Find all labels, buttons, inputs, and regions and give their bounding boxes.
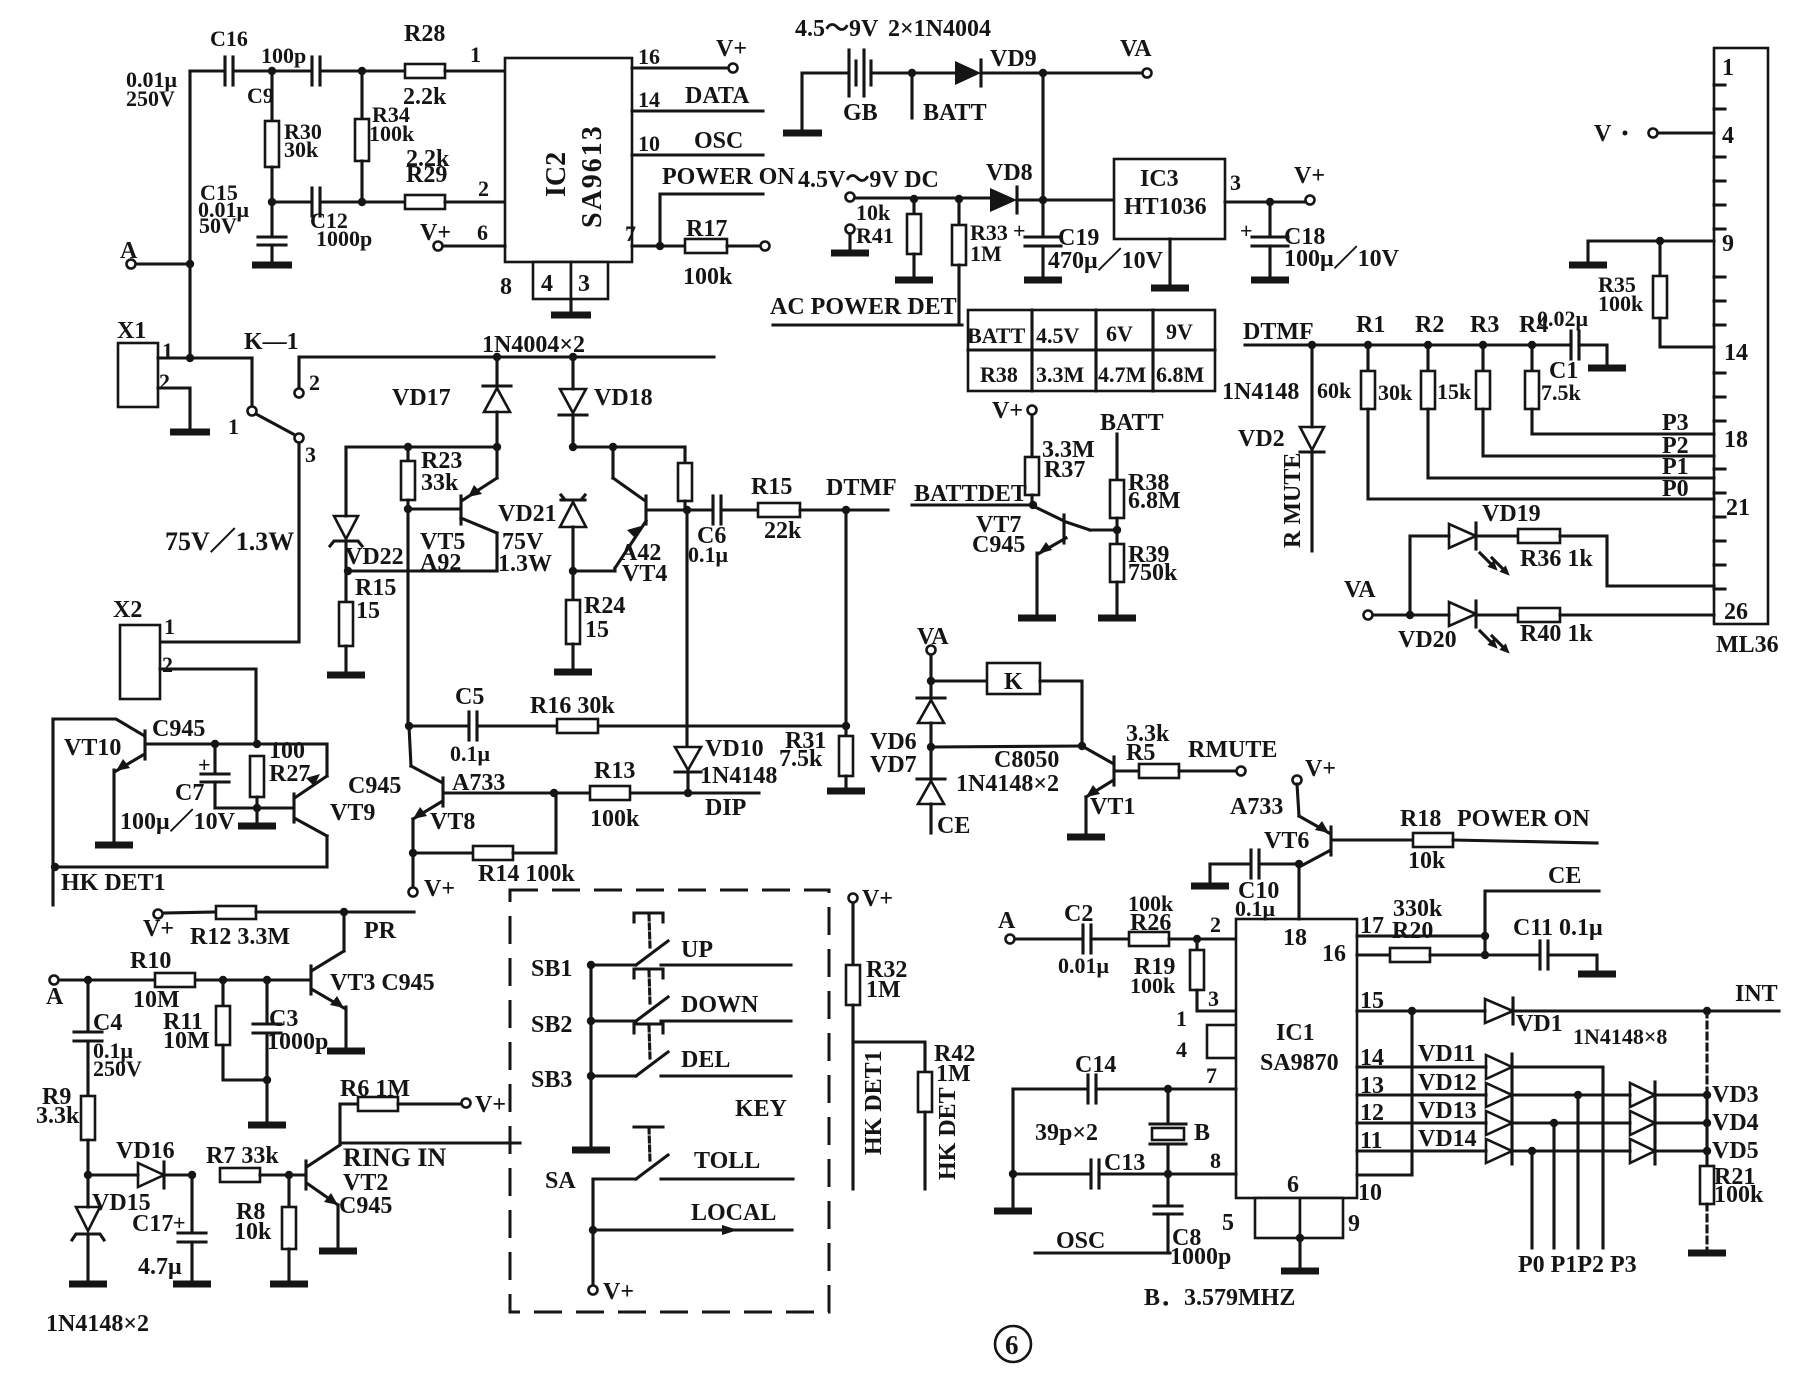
resistor R28 2.2k xyxy=(403,21,447,110)
node R8 tap xyxy=(285,1171,293,1179)
svg-text:100k: 100k xyxy=(683,264,733,290)
capacitor C1 0.02u xyxy=(1537,306,1626,384)
svg-text:30k: 30k xyxy=(1378,380,1413,405)
node LOCAL tap xyxy=(589,1226,597,1234)
svg-text:R2: R2 xyxy=(1415,312,1444,338)
capacitor C3 1000p xyxy=(248,980,328,1125)
svg-text:7.5k: 7.5k xyxy=(779,746,823,772)
resistor R37 3.3M xyxy=(1025,415,1095,505)
svg-text:R26: R26 xyxy=(1130,910,1171,936)
capacitor C14 39p xyxy=(1013,1052,1236,1103)
svg-text:0.02μ: 0.02μ xyxy=(1537,306,1589,331)
transistor VT3 C945 xyxy=(311,912,435,1051)
node BATT tap xyxy=(908,69,916,77)
svg-text:DATA: DATA xyxy=(685,83,750,109)
wire R42 branch xyxy=(853,1042,925,1072)
node emitter/R14 xyxy=(409,849,417,857)
IC1 pin17 wire xyxy=(1357,913,1485,939)
resistor R6 1M xyxy=(340,1076,506,1143)
resistor R27 100 xyxy=(250,738,310,808)
resistor R10 10M xyxy=(130,948,195,1013)
svg-text:VD17: VD17 xyxy=(392,385,451,411)
svg-text:100μ／10V: 100μ／10V xyxy=(1284,245,1400,272)
svg-text:VD3: VD3 xyxy=(1712,1082,1759,1108)
resistor R33 1M xyxy=(952,199,1008,324)
svg-text:R20: R20 xyxy=(1392,918,1433,944)
wire P1 xyxy=(1428,409,1714,480)
resistor R30 30k xyxy=(265,71,322,237)
DC input terminal 2 grounded xyxy=(831,225,869,254)
svg-text:1N4148×2: 1N4148×2 xyxy=(956,771,1059,797)
terminal V- pin4 xyxy=(1594,121,1714,147)
resistor R14 100k xyxy=(413,793,575,887)
svg-text:750k: 750k xyxy=(1128,560,1178,586)
wire VT4 emitter rail xyxy=(573,569,614,572)
svg-text:C4: C4 xyxy=(93,1010,122,1036)
svg-text:VD19: VD19 xyxy=(1482,501,1541,527)
node R9/VD15/VD16 xyxy=(84,1171,92,1179)
transistor VT5 A92 xyxy=(408,447,552,577)
IC1 pin13 row + diode VD12 xyxy=(1357,1070,1630,1108)
wire VD9 node down to DC rail xyxy=(1041,73,1044,200)
svg-text:KEY: KEY xyxy=(735,1096,787,1122)
svg-text:100k: 100k xyxy=(590,806,640,832)
ground at R27 bottom xyxy=(238,808,276,826)
svg-text:R38: R38 xyxy=(980,362,1018,387)
svg-text:1000p: 1000p xyxy=(1170,1244,1231,1270)
svg-text:9V: 9V xyxy=(1166,319,1193,344)
svg-text:10k: 10k xyxy=(856,200,891,225)
diode VD18 xyxy=(559,357,653,447)
IC2 pin10 OSC xyxy=(632,128,763,156)
capacitor C4 0.1u 250V xyxy=(74,980,142,1096)
wire A row y=980 xyxy=(59,978,309,981)
svg-text:15: 15 xyxy=(585,617,609,643)
svg-text:R24: R24 xyxy=(584,593,625,619)
svg-text:V+: V+ xyxy=(992,398,1023,424)
svg-text:C945: C945 xyxy=(348,773,401,799)
svg-text:V+: V+ xyxy=(475,1092,506,1118)
svg-text:7: 7 xyxy=(1206,1063,1217,1088)
resistor R29 2.2k xyxy=(405,146,450,209)
svg-text:R16 30k: R16 30k xyxy=(530,693,615,719)
capacitor C11 0.1u xyxy=(1513,915,1616,974)
IC1 SA9870 xyxy=(1236,919,1357,1198)
svg-text:C945: C945 xyxy=(152,716,205,742)
svg-text:C7: C7 xyxy=(175,780,204,806)
svg-text:30k: 30k xyxy=(284,137,319,162)
svg-text:R41: R41 xyxy=(856,223,894,248)
svg-text:TOLL: TOLL xyxy=(694,1148,760,1174)
resistor R39 750k xyxy=(1098,542,1178,618)
svg-text:VD2: VD2 xyxy=(1238,426,1285,452)
wire switch pos3 down to X2 pin1 xyxy=(160,443,299,642)
resistor R40 1k xyxy=(1476,608,1714,647)
svg-text:A: A xyxy=(46,984,64,1010)
ground battery xyxy=(783,130,822,137)
svg-text:4.5V～9V DC: 4.5V～9V DC xyxy=(798,167,939,193)
resistor R23 33k xyxy=(401,447,462,509)
svg-text:0.1μ: 0.1μ xyxy=(450,741,491,766)
svg-text:8: 8 xyxy=(1210,1148,1221,1173)
svg-text:SB3: SB3 xyxy=(531,1067,572,1093)
svg-text:1M: 1M xyxy=(970,241,1002,266)
wire DIP row y=793 xyxy=(446,791,759,794)
diode VD6 xyxy=(870,698,945,755)
wire DC rail xyxy=(855,198,1114,200)
terminal VA (LED feed) xyxy=(1344,577,1449,620)
svg-text:C8050: C8050 xyxy=(994,747,1059,773)
node VD8/C19 xyxy=(1039,196,1047,204)
svg-text:R18: R18 xyxy=(1400,806,1441,832)
svg-text:1: 1 xyxy=(1722,55,1734,81)
svg-text:1M: 1M xyxy=(866,977,901,1003)
svg-text:UP: UP xyxy=(681,937,713,963)
svg-text:VA: VA xyxy=(1120,36,1152,62)
svg-text:OSC: OSC xyxy=(694,128,743,154)
diode VD9 xyxy=(955,46,1043,86)
svg-text:C945: C945 xyxy=(339,1193,392,1219)
wire VT10 base rail y=744 xyxy=(147,742,327,745)
svg-text:R37: R37 xyxy=(1044,457,1085,483)
svg-text:50V: 50V xyxy=(199,213,237,238)
battery GB xyxy=(843,50,878,126)
resistor R19 100k xyxy=(1130,939,1236,1031)
node R41 top xyxy=(910,195,918,203)
node VD6/VD7 xyxy=(927,743,935,751)
svg-text:75V／1.3W: 75V／1.3W xyxy=(165,527,294,556)
svg-text:R6 1M: R6 1M xyxy=(340,1076,410,1102)
svg-text:VD7: VD7 xyxy=(870,752,917,778)
resistor R26 100k xyxy=(1128,891,1236,946)
node VT6 base xyxy=(1295,860,1303,868)
transistor VT9 C945 xyxy=(294,744,401,867)
svg-text:60k: 60k xyxy=(1317,378,1352,403)
wire R29 to IC2 pin2 xyxy=(445,176,505,202)
resistor R34 100k xyxy=(355,71,415,202)
svg-text:3: 3 xyxy=(578,271,590,297)
svg-text:250V: 250V xyxy=(93,1056,142,1081)
diode VD1 xyxy=(1485,998,1707,1037)
svg-text:R10: R10 xyxy=(130,948,171,974)
svg-text:BATT: BATT xyxy=(1100,410,1164,436)
svg-text:B: B xyxy=(1194,1120,1210,1146)
node P0 tap / diode VD5 xyxy=(1528,1138,1759,1248)
wire BATT stub xyxy=(912,73,987,126)
svg-text:VD11: VD11 xyxy=(1418,1041,1475,1067)
capacitor C9 xyxy=(247,43,320,108)
svg-text:SA9613: SA9613 xyxy=(577,124,608,228)
svg-text:1: 1 xyxy=(228,414,239,439)
svg-text:VD12: VD12 xyxy=(1418,1070,1477,1096)
svg-text:100μ／10V: 100μ／10V xyxy=(120,808,236,835)
svg-text:4: 4 xyxy=(1176,1037,1187,1062)
svg-text:A: A xyxy=(998,908,1016,934)
IC1 pin14 row + diode VD11 xyxy=(1357,1041,1603,1248)
ground IC3 xyxy=(1151,239,1189,288)
svg-text:18: 18 xyxy=(1724,427,1748,453)
svg-text:3.3k: 3.3k xyxy=(36,1103,80,1129)
node VD2 tap xyxy=(1308,341,1316,349)
svg-text:22k: 22k xyxy=(764,518,802,544)
wire A to vertical bus xyxy=(136,262,190,265)
svg-text:VT8: VT8 xyxy=(430,809,475,835)
wire INT column dashed xyxy=(1705,1011,1708,1095)
resistor R2 30k xyxy=(1378,345,1435,409)
svg-text:9: 9 xyxy=(1348,1211,1360,1237)
resistor R16 30k xyxy=(530,693,615,733)
svg-text:X2: X2 xyxy=(113,597,142,623)
svg-text:A: A xyxy=(120,238,138,264)
svg-text:1: 1 xyxy=(1176,1006,1187,1031)
wire SA pole down xyxy=(591,1179,594,1286)
wire IC3 out to V+ xyxy=(1225,163,1325,205)
diode VD17 xyxy=(392,357,511,447)
capacitor C19 470u/10V xyxy=(1013,200,1164,280)
resistor R38 6.8M xyxy=(1110,434,1181,544)
svg-text:6: 6 xyxy=(1005,1330,1019,1360)
svg-text:B．3.579MHZ: B．3.579MHZ xyxy=(1144,1285,1295,1311)
svg-text:2: 2 xyxy=(1210,912,1221,937)
svg-text:3: 3 xyxy=(305,442,316,467)
node C17 tap xyxy=(188,1171,196,1179)
terminal V+ keypad xyxy=(589,1279,635,1305)
ground for C10 xyxy=(1191,864,1229,886)
wire P3 xyxy=(1532,409,1714,436)
node R2 xyxy=(1415,312,1444,349)
diode VD10 1N4148 xyxy=(675,736,777,793)
wire left collector rail y=447 xyxy=(346,445,497,448)
resistor R24 15 xyxy=(554,571,625,672)
wire pin9 xyxy=(1588,241,1714,263)
svg-text:3: 3 xyxy=(1208,986,1219,1011)
svg-text:BATTDET: BATTDET xyxy=(914,481,1027,507)
svg-text:ML36: ML36 xyxy=(1716,632,1779,658)
resistor R9 3.3k xyxy=(36,1084,95,1175)
svg-text:R17: R17 xyxy=(686,216,727,242)
diode VD16 xyxy=(88,1138,192,1188)
svg-text:VA: VA xyxy=(917,624,949,650)
resistor R7 33k xyxy=(206,1143,304,1182)
svg-text:1N4148: 1N4148 xyxy=(700,763,777,789)
IC2 pin7 wire xyxy=(625,221,685,250)
svg-text:4.5～9V: 4.5～9V xyxy=(795,16,879,42)
resistor R1 60k xyxy=(1317,345,1375,409)
svg-text:IC1: IC1 xyxy=(1276,1020,1315,1046)
node R23/base xyxy=(404,505,412,513)
svg-text:3: 3 xyxy=(1230,170,1241,195)
svg-text:V+: V+ xyxy=(1305,756,1336,782)
terminal V+ above R32 xyxy=(849,886,894,912)
wire INT stub xyxy=(1703,981,1779,1015)
resistor R17 100k xyxy=(683,216,770,290)
svg-text:14: 14 xyxy=(638,87,660,112)
svg-text:DEL: DEL xyxy=(681,1047,730,1073)
wire BATTDET xyxy=(912,481,1033,507)
wire vertical bus x=190 xyxy=(188,71,191,358)
wire VA down to VD6 xyxy=(929,655,932,698)
svg-text:6V: 6V xyxy=(1106,321,1133,346)
transistor VT2 C945 xyxy=(306,1145,392,1251)
svg-text:OSC: OSC xyxy=(1056,1228,1105,1254)
keypad dashed box xyxy=(510,890,829,1312)
svg-text:100k: 100k xyxy=(1714,1182,1764,1208)
wire battery left to ground xyxy=(802,73,849,131)
svg-text:100k: 100k xyxy=(1598,291,1644,316)
wire left osc bus + ground xyxy=(994,1089,1032,1211)
svg-text:1M: 1M xyxy=(936,1061,971,1087)
svg-text:VD8: VD8 xyxy=(986,160,1033,186)
wire right rail y=447 xyxy=(573,445,685,448)
svg-text:1N4148×8: 1N4148×8 xyxy=(1573,1024,1667,1049)
svg-text:VT10: VT10 xyxy=(64,735,121,761)
node VD9/VA xyxy=(1039,69,1047,77)
svg-text:3.3M: 3.3M xyxy=(1036,362,1085,387)
wire battery right to VD9 xyxy=(871,71,955,74)
node R4 xyxy=(1519,312,1548,349)
ground X1 pin2 xyxy=(170,429,210,436)
switch SB2 DOWN xyxy=(531,969,791,1038)
svg-text:VT6: VT6 xyxy=(1264,828,1309,854)
svg-text:SB1: SB1 xyxy=(531,956,572,982)
svg-text:CE: CE xyxy=(1548,863,1581,889)
wire RING IN xyxy=(340,1143,520,1172)
IC2 pin16 wire to V+ xyxy=(632,36,747,73)
svg-text:250V: 250V xyxy=(126,86,175,111)
diode VD2 xyxy=(1238,345,1324,452)
crystal B xyxy=(1150,1089,1210,1174)
svg-text:+: + xyxy=(173,1210,186,1235)
svg-text:DTMF: DTMF xyxy=(826,475,897,501)
node junction C9/R34 xyxy=(358,67,366,75)
zener VD21 xyxy=(498,495,586,571)
switch SB3 DEL xyxy=(531,1024,791,1093)
node C18 top xyxy=(1266,198,1274,206)
svg-text:10: 10 xyxy=(638,131,660,156)
node R19 top xyxy=(1193,935,1201,943)
IC3 HT1036 xyxy=(1114,159,1241,239)
svg-text:1: 1 xyxy=(470,42,481,67)
svg-text:RMUTE: RMUTE xyxy=(1188,737,1277,763)
svg-text:16: 16 xyxy=(1322,941,1346,967)
svg-text:IC2: IC2 xyxy=(541,152,572,197)
wire C5/R16 rail y=726 xyxy=(409,724,846,727)
svg-text:V+: V+ xyxy=(862,886,893,912)
wire X1 pin2 to ground xyxy=(158,388,190,430)
svg-text:R36 1k: R36 1k xyxy=(1520,546,1593,572)
ground under C15 xyxy=(252,262,292,269)
capacitor C2 0.01u xyxy=(1015,901,1129,978)
node collector/R38/R39 xyxy=(1113,526,1121,534)
wire top rail y=71 xyxy=(190,69,405,72)
svg-text:1N4148: 1N4148 xyxy=(1222,379,1299,405)
svg-text:VD13: VD13 xyxy=(1418,1098,1477,1124)
zener VD22 xyxy=(330,447,404,571)
wire CE xyxy=(1485,863,1599,955)
svg-text:P0 P1P2 P3: P0 P1P2 P3 xyxy=(1518,1252,1637,1278)
svg-text:LOCAL: LOCAL xyxy=(691,1200,776,1226)
svg-text:SB2: SB2 xyxy=(531,1012,572,1038)
svg-text:A733: A733 xyxy=(452,770,505,796)
svg-text:+: + xyxy=(198,752,211,777)
resistor R4 7.5k xyxy=(1525,345,1582,409)
switch SB1 UP xyxy=(531,913,791,982)
svg-text:C9: C9 xyxy=(247,83,274,108)
connector X1 xyxy=(117,318,173,407)
svg-text:V: V xyxy=(1594,121,1612,147)
svg-text:5: 5 xyxy=(1222,1210,1234,1236)
wire LOCAL xyxy=(593,1200,792,1235)
table BATT/R38 xyxy=(967,310,1215,391)
svg-text:VD10: VD10 xyxy=(705,736,764,762)
V+ terminal above R37 xyxy=(992,398,1037,424)
svg-text:VT1: VT1 xyxy=(1090,794,1135,820)
svg-text:VD16: VD16 xyxy=(116,1138,175,1164)
svg-text:R7 33k: R7 33k xyxy=(206,1143,279,1169)
svg-text:C945: C945 xyxy=(972,532,1025,558)
svg-text:14: 14 xyxy=(1724,340,1748,366)
capacitor C18 100u/10V xyxy=(1240,202,1400,280)
resistor R15 (15) xyxy=(327,571,396,675)
connector X2 xyxy=(113,597,175,699)
svg-text:VT4: VT4 xyxy=(622,561,667,587)
node VT4 base/C6 xyxy=(683,506,691,514)
terminal V+ VT6 xyxy=(1293,756,1337,785)
svg-text:1.3W: 1.3W xyxy=(498,551,552,577)
wire base node to IC1 pin18 xyxy=(1297,864,1300,919)
svg-text:100k: 100k xyxy=(369,121,415,146)
wire X1 pin1 xyxy=(158,356,252,359)
svg-text:10k: 10k xyxy=(234,1219,272,1245)
svg-text:R MUTE: R MUTE xyxy=(1280,453,1306,548)
resistor R41 10k xyxy=(856,199,933,280)
capacitor C8 1000p xyxy=(1154,1174,1231,1270)
svg-text:VT3 C945: VT3 C945 xyxy=(330,970,435,996)
IC1 pin16 wire + R20 330k xyxy=(1322,896,1539,967)
svg-text:VD22: VD22 xyxy=(345,544,404,570)
wire base node down to VD10 xyxy=(685,510,688,745)
svg-text:POWER ON: POWER ON xyxy=(1457,806,1590,832)
terminal V+ for R12 xyxy=(143,910,174,943)
terminal VA relay xyxy=(917,624,949,655)
svg-text:C5: C5 xyxy=(455,684,484,710)
node R33 top xyxy=(955,195,963,203)
capacitor C10 0.1u xyxy=(1210,850,1299,921)
switch SA TOLL xyxy=(545,1127,793,1194)
node DTMF junction xyxy=(826,475,897,514)
resistor R21 100k xyxy=(1688,1151,1764,1253)
svg-text:2: 2 xyxy=(162,652,173,677)
svg-text:VD4: VD4 xyxy=(1712,1110,1759,1136)
POWER ON stub from pin7 xyxy=(660,164,795,246)
svg-text:C16: C16 xyxy=(210,26,248,51)
capacitor C12 1000p xyxy=(310,188,372,251)
wire emitter rail y=571 xyxy=(346,569,497,572)
svg-text:V+: V+ xyxy=(603,1279,634,1305)
capacitor C7 100u/10V xyxy=(120,744,236,835)
svg-text:10k: 10k xyxy=(1408,848,1446,874)
capacitor C13 39p xyxy=(1014,1148,1236,1188)
svg-text:15: 15 xyxy=(356,598,380,624)
capacitor C17 4.7u xyxy=(132,1175,211,1284)
IC1 pin4 box xyxy=(1176,1025,1236,1062)
capacitor C16 xyxy=(126,26,248,111)
diode VD20 LED xyxy=(1398,601,1513,657)
svg-text:0.1μ: 0.1μ xyxy=(688,542,729,567)
resistor R15 22k xyxy=(751,474,888,544)
svg-text:10M: 10M xyxy=(163,1028,210,1054)
svg-text:R29: R29 xyxy=(406,162,447,188)
